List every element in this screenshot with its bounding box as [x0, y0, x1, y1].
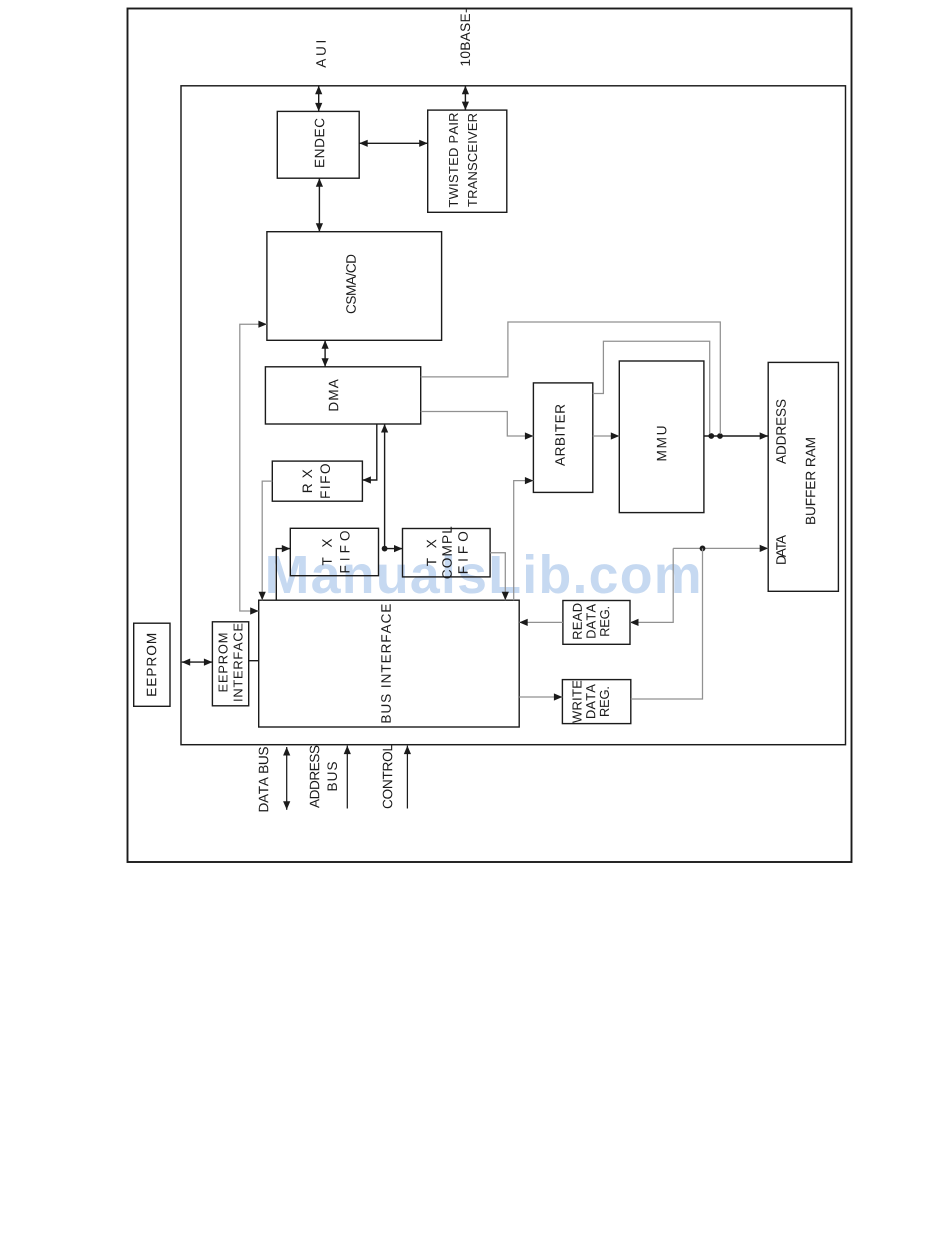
wire data net to BUFFER RAM [673, 547, 768, 549]
label RX [303, 470, 312, 493]
arrowhead into CSMA/CD left [322, 340, 329, 349]
label AUI [316, 41, 326, 68]
junction dot address net 1 [708, 433, 714, 439]
label EEPROM (IF) [218, 634, 227, 692]
wire READ DATA REG to BUS INTERFACE [519, 621, 563, 623]
wire ARBITER to MMU [593, 435, 620, 437]
label TX [322, 539, 331, 565]
wire CSMA/CD - BUS INTERFACE loop [240, 324, 267, 611]
wire RX FIFO to BUS INTERFACE [262, 481, 272, 600]
arrowhead into MMU [611, 432, 620, 439]
wire DATA BUS [286, 747, 288, 810]
arrowhead into ENDEC left [316, 178, 323, 187]
block EEPROM [134, 623, 170, 706]
arrowhead into RX FIFO [362, 476, 371, 483]
arrowhead into BUFFER RAM data [760, 545, 769, 552]
label CONTROL [383, 745, 393, 809]
arrowhead into BUS INTERFACE from READ [519, 619, 528, 626]
wire CONTROL [406, 746, 408, 809]
label ADDRESS BUS line2 [327, 762, 337, 790]
wire BUS INTERFACE to TX FIFO [276, 549, 290, 601]
arrowhead into BUS INTERFACE from TX COMPL [502, 592, 509, 601]
label READ [573, 604, 582, 639]
watermark ManualsLib.com [268, 554, 698, 594]
arrowhead into BUFFER RAM address [760, 432, 769, 439]
label COMPL [442, 527, 452, 579]
block READ DATA REG [563, 601, 630, 645]
arrowhead into WRITE DATA REG [554, 693, 563, 700]
arrowhead into READ DATA REG [630, 619, 639, 626]
wire AUI [318, 86, 320, 112]
arrowhead 10BASE-T left [462, 102, 469, 111]
label FIFO (COMPL) [458, 532, 468, 573]
label CSMA/CD [346, 255, 356, 314]
block WRITE DATA REG [562, 680, 630, 724]
block TWISTED PAIR TRANSCEIVER [428, 110, 507, 212]
arrowhead into BUS INTERFACE from RX FIFO [259, 592, 266, 601]
label EEPROM [147, 634, 157, 696]
label BUS INTERFACE [381, 604, 391, 722]
junction dot address net 2 [717, 433, 723, 439]
wire DMA to RX FIFO [362, 424, 376, 480]
arrowhead into ARBITER from BUS INTERFACE [525, 477, 534, 484]
wire BUS INTERFACE to ARBITER [514, 481, 534, 601]
wire TX COMPL FIFO to BUS INTERFACE [490, 553, 505, 601]
arrowhead DATA BUS left [283, 801, 290, 810]
wire EEPROM to EEPROM INTERFACE [182, 661, 213, 663]
label ENDEC [315, 119, 325, 167]
wire DMA to ARBITER [421, 412, 534, 437]
block CSMA/CD [267, 232, 442, 341]
arrowhead CONTROL [404, 746, 411, 755]
arrowhead into DMA [381, 424, 388, 433]
wire EEPROM INTERFACE to BUS INTERFACE [249, 660, 259, 662]
wire junction to TX COMPL FIFO [385, 548, 403, 550]
wire data net to WRITE DATA REG [631, 548, 703, 699]
inner diagram frame [181, 86, 846, 745]
arrowhead into CSMA/CD top [258, 321, 267, 328]
wire ADDRESS BUS [346, 746, 348, 809]
block ARBITER [533, 383, 592, 493]
label 10BASE-T [460, 9, 470, 65]
wire ENDEC-TPT [359, 142, 428, 144]
label INTERFACE [233, 624, 242, 701]
arrowhead into TPT [419, 140, 428, 147]
wire CSMA/CD-DMA [324, 340, 326, 367]
label DATA (READ REG) [587, 604, 596, 638]
label FIFO (RX) [320, 464, 330, 498]
label DMA [329, 379, 338, 410]
label REG. (WRITE REG) [600, 687, 609, 716]
arrowhead DATA BUS right [283, 747, 290, 756]
label TRANSCEIVER [468, 114, 477, 207]
block EEPROM INTERFACE [212, 622, 248, 706]
arrowhead into ENDEC [359, 140, 368, 147]
label ADDRESS BUS line1 [310, 746, 320, 808]
wire ENDEC-CSMA/CD [318, 178, 320, 232]
label TWISTED PAIR [449, 113, 458, 207]
arrowhead into TX FIFO [282, 545, 291, 552]
outer page border [128, 9, 852, 863]
block TX FIFO [290, 528, 378, 575]
arrowhead 10BASE-T right [462, 86, 469, 95]
label ARBITER [555, 405, 564, 466]
label WRITE [573, 681, 582, 723]
arrowhead ADDRESS BUS [344, 746, 351, 755]
block MMU [619, 361, 704, 513]
block BUFFER RAM [768, 362, 838, 591]
arrowhead into CSMA/CD right [316, 223, 323, 232]
label BUFFER RAM [806, 438, 816, 524]
label DATA (WRITE REG) [586, 684, 595, 718]
label MMU [657, 427, 667, 461]
block ENDEC [277, 111, 359, 178]
wire BUS INTERFACE to WRITE DATA REG [519, 696, 562, 698]
wire data net to READ DATA REG [630, 548, 673, 622]
label REG. (READ REG) [600, 607, 609, 636]
arrowhead AUI right [315, 86, 322, 95]
label DATA BUS [259, 747, 269, 811]
label FIFO (TX) [340, 531, 350, 572]
block RX FIFO [272, 461, 362, 501]
arrowhead into EEPROM [182, 659, 191, 666]
wire DMA to TX junction [384, 424, 386, 549]
wire ARBITER loop to address net [593, 341, 710, 434]
arrowhead AUI left [315, 103, 322, 112]
label ADDRESS (BUFFER RAM) [776, 400, 786, 464]
arrowhead into BUS INTERFACE top [250, 607, 259, 614]
block BUS INTERFACE [259, 600, 520, 727]
label TX (COMPL) [427, 540, 436, 566]
arrowhead into DMA right [322, 358, 329, 367]
arrowhead into EEPROM INTERFACE [204, 659, 213, 666]
wire MMU to BUFFER RAM address [704, 435, 768, 437]
arrowhead into ARBITER from DMA [525, 432, 534, 439]
label DATA (BUFFER RAM) [776, 535, 785, 564]
junction dot data net [700, 546, 706, 552]
block TX COMPL FIFO [403, 529, 491, 577]
wire DMA to address net [421, 322, 721, 434]
wire 10BASE-T [464, 86, 466, 110]
arrowhead into TX COMPL FIFO [394, 545, 403, 552]
block DMA [265, 367, 420, 424]
junction dot TX net [382, 546, 388, 552]
